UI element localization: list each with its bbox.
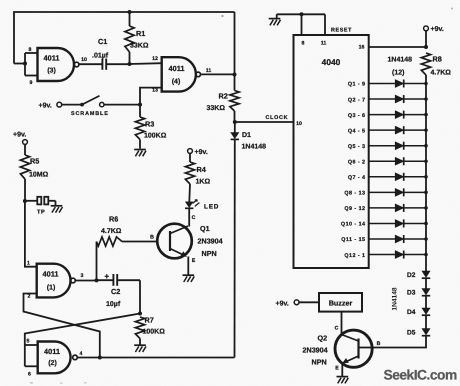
svg-text:4011: 4011 [42,270,58,279]
wire bus seg [425,278,427,288]
svg-text:D5: D5 [407,330,416,337]
node CLOCK junction [233,120,237,124]
wire diode bus [425,84,427,272]
node bus row 2 [424,97,428,101]
wire gate3 out to C1 [79,63,102,65]
svg-text:Buzzer: Buzzer [329,298,353,307]
diode 1N4148 row 10 [369,222,395,224]
svg-text:R3: R3 [145,120,154,129]
svg-text:+9v.: +9v. [195,149,208,156]
node gate2 output junction [98,356,102,360]
svg-text:11: 11 [206,68,212,74]
wire pin11 output [201,73,235,75]
buzzer [319,293,362,312]
wire gate1 pin2 cross-couple to gate2 output [24,294,100,358]
svg-text:Q1 - 9: Q1 - 9 [348,82,366,88]
transistor Q1 2N3904 [157,224,192,259]
resistor R7 100K [135,317,144,339]
svg-text:C2: C2 [111,287,120,296]
gate U1 4011 (3) [38,48,75,81]
svg-text:2N3904: 2N3904 [303,346,328,355]
resistor R4 1K [189,153,191,162]
resistor R5 10M [24,144,26,155]
svg-text:Q2: Q2 [318,334,328,343]
wire CLOCK to 4040 pin 10 [235,121,294,123]
svg-text:Q1: Q1 [200,224,210,233]
diode D5 [422,329,430,335]
diode 1N4148 row 6 [369,160,395,162]
svg-text:.01µf: .01µf [92,52,109,60]
svg-text:4011: 4011 [168,64,184,73]
svg-text:C: C [192,215,196,221]
ground at 4040 top [276,14,278,18]
svg-text:R4: R4 [197,165,207,174]
wire bus seg [425,315,427,328]
svg-text:9: 9 [30,80,33,86]
svg-text:4: 4 [80,351,83,357]
wire pin13 to R3 node [140,88,162,105]
wire LED to Q1 collector [188,208,190,226]
svg-text:RESET: RESET [331,28,352,34]
node bus row 4 [424,128,428,132]
wire pin11 column [234,12,236,74]
diode 1N4148 row 9 [369,207,395,209]
node bus row 9 [424,206,428,210]
wire Q1 emitter to ground [187,257,189,275]
svg-text:(12): (12) [392,69,404,77]
resistor R3 100K [139,105,141,117]
node bus row 10 [424,222,428,226]
gate2 input ties [25,344,38,346]
wire bus seg [425,296,427,308]
gate U1 4011 (4) [162,57,196,91]
svg-text:E: E [335,366,339,372]
wire to buzzer [299,301,319,303]
svg-text:LED: LED [204,204,219,211]
svg-text:C1: C1 [98,37,107,46]
node bus row 3 [424,113,428,117]
svg-text:1KΩ: 1KΩ [196,179,211,186]
svg-text:8: 8 [29,47,32,53]
svg-text:D1: D1 [242,132,251,139]
svg-text:B: B [150,235,154,241]
wire down to gate1 pin1 [25,201,37,267]
ground below Q1 [183,274,195,276]
diode 1N4148 row 7 [369,176,395,178]
svg-text:CLOCK: CLOCK [266,115,289,121]
wire pin16 to R8 [369,46,426,48]
svg-text:R8: R8 [433,55,442,64]
svg-text:+9v.: +9v. [276,301,289,308]
LED [185,202,193,208]
svg-text:R6: R6 [109,215,118,224]
svg-text:D3: D3 [407,290,416,297]
svg-text:NPN: NPN [312,358,327,367]
switch SCRAMBLE [62,104,81,106]
svg-text:5: 5 [27,339,30,345]
svg-text:100KΩ: 100KΩ [144,133,167,140]
node bus row 6 [424,159,428,163]
svg-text:1N4148: 1N4148 [242,144,267,151]
node bus row 12 [424,253,428,257]
svg-text:4.7KΩ: 4.7KΩ [431,70,452,77]
wire gate3 input tie [14,63,25,65]
svg-text:10µf: 10µf [106,300,121,308]
wire gate2 output bottom rail [77,357,234,359]
diode D2 [422,271,430,277]
svg-text:4011: 4011 [44,347,60,356]
svg-text:R7: R7 [145,316,154,325]
svg-text:C: C [335,326,339,332]
svg-text:100KΩ: 100KΩ [143,329,166,336]
ground at TP [51,205,63,207]
node C2/R7 junction [138,312,142,316]
svg-text:4011: 4011 [43,54,59,63]
node pin3/R6/C2 junction [95,278,99,282]
svg-text:1N4148: 1N4148 [388,57,413,64]
svg-text:Q9 - 12: Q9 - 12 [344,206,365,212]
diode D3 [422,289,430,295]
diode 1N4148 row 2 [369,98,395,100]
diode 1N4148 row 1 [369,83,395,85]
svg-text:E: E [192,258,196,264]
node bus row 7 [424,175,428,179]
svg-text:Q8 - 13: Q8 - 13 [344,191,365,197]
svg-text:Q7 - 4: Q7 - 4 [348,175,366,181]
svg-text:1N4148: 1N4148 [392,287,399,310]
wire Q2 base [359,347,373,349]
svg-text:10: 10 [81,57,87,63]
svg-text:(1): (1) [47,284,56,292]
svg-text:B: B [377,341,381,347]
IC U2 4040 [294,35,369,268]
diode 1N4148 row 11 [369,238,395,240]
diode 1N4148 row 3 [369,114,395,116]
svg-text:+9v.: +9v. [39,103,52,110]
wire R6 to Q1 base [122,241,157,243]
gate U1 4011 (1) [37,264,71,298]
svg-text:2N3904: 2N3904 [198,237,223,246]
transistor Q2 2N3904 [335,330,372,367]
diode 1N4148 row 12 [369,254,395,256]
svg-text:1: 1 [27,261,30,267]
svg-text:Q4 - 5: Q4 - 5 [348,128,366,134]
svg-text:11: 11 [321,41,327,47]
node pin11 junction [233,73,237,77]
diode 1N4148 row 5 [369,145,395,147]
node bus row 1 [424,82,428,86]
scan speck [221,15,223,17]
wire D1 to bottom rail [234,139,236,357]
resistor R8 4.7K [421,53,430,75]
wire gate1 output node [75,280,96,282]
gate U1 4011 (2) [38,342,71,374]
svg-text:R1: R1 [136,29,145,38]
diode 1N4148 row 8 [369,191,395,193]
svg-text:SCRAMBLE: SCRAMBLE [71,111,109,117]
svg-text:4.7KΩ: 4.7KΩ [101,228,122,235]
svg-text:33KΩ: 33KΩ [130,43,149,50]
wire C1 to pin 12 [106,63,129,65]
svg-text:Q12 - 1: Q12 - 1 [344,253,365,259]
svg-text:16: 16 [359,45,365,51]
svg-text:D2: D2 [407,272,416,279]
ground below R3 [134,149,146,151]
touch plates TP [37,197,41,205]
svg-text:10: 10 [296,121,302,127]
wire bus to Q2 base [373,336,427,348]
resistor R2 33K [234,74,236,90]
ground below Q2 [337,376,349,378]
wire cross-couple to gate2 inputs [25,314,140,367]
wire Q2 emitter to ground [341,363,343,376]
svg-text:33KΩ: 33KΩ [207,105,226,112]
node R3 top junction [138,103,142,107]
svg-text:Q11 - 15: Q11 - 15 [341,237,365,243]
svg-text:10MΩ: 10MΩ [29,172,49,179]
wire buzzer to Q2 collector [341,312,343,336]
svg-text:(3): (3) [47,67,56,75]
svg-text:Q5 - 3: Q5 - 3 [348,144,366,150]
svg-text:6: 6 [28,372,31,378]
svg-text:D4: D4 [407,309,416,316]
node bus row 8 [424,191,428,195]
scan speck [451,8,453,10]
node R8 top junction [424,45,428,49]
svg-text:+9v.: +9v. [13,132,26,139]
svg-text:8: 8 [302,41,305,47]
ground below R7 [134,344,146,346]
svg-text:+9v.: +9v. [431,26,444,33]
wire reset rail [277,13,325,15]
node R1 bottom junction [128,62,132,66]
svg-text:(4): (4) [172,78,181,86]
scan speck [30,382,33,384]
svg-text:(2): (2) [48,359,57,367]
resistor R1 33K [129,12,131,26]
svg-text:Q10 - 14: Q10 - 14 [341,222,366,228]
svg-text:SeekIC.com: SeekIC.com [384,368,457,383]
svg-text:12: 12 [152,56,158,62]
svg-text:Q2 - 7: Q2 - 7 [348,97,366,103]
svg-text:TP: TP [37,210,45,216]
node TP junction [23,199,27,203]
wire plate to ground [49,200,56,202]
node bus row 5 [424,144,428,148]
node bus row 11 [424,237,428,241]
diode D4 [422,308,430,314]
wire feedback top rail [14,12,235,64]
svg-text:NPN: NPN [202,249,217,258]
svg-text:Q3 - 6: Q3 - 6 [348,113,366,119]
svg-text:3: 3 [81,273,84,279]
svg-text:R5: R5 [30,157,39,166]
capacitor C1 .01uf [101,59,103,70]
diode D1 1N4148 [234,122,236,133]
wire C2 to R7 node [117,279,140,281]
node R1 top junction [128,10,132,14]
wire to touch plates [25,200,37,202]
diode 1N4148 row 4 [369,129,395,131]
svg-text:R2: R2 [219,92,228,101]
svg-text:4040: 4040 [322,57,341,67]
svg-text:Q6 - 2: Q6 - 2 [348,159,366,165]
resistor R6 4.7K [96,242,98,281]
node reset junction [300,12,304,16]
